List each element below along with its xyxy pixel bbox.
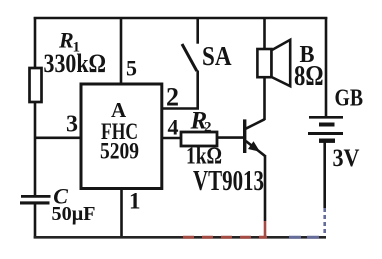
svg-text:GB: GB: [335, 86, 364, 112]
svg-text:8Ω: 8Ω: [294, 60, 324, 92]
svg-text:50μF: 50μF: [52, 203, 96, 225]
svg-text:3: 3: [66, 111, 78, 137]
svg-text:1: 1: [129, 188, 141, 213]
svg-text:4: 4: [168, 114, 179, 139]
svg-text:2: 2: [204, 120, 212, 136]
svg-text:VT9013: VT9013: [193, 166, 264, 197]
svg-text:SA: SA: [202, 41, 232, 71]
svg-text:330kΩ: 330kΩ: [44, 49, 107, 78]
svg-text:5209: 5209: [100, 139, 139, 164]
svg-text:2: 2: [166, 83, 179, 112]
svg-text:5: 5: [126, 56, 137, 81]
svg-text:3V: 3V: [333, 145, 360, 172]
